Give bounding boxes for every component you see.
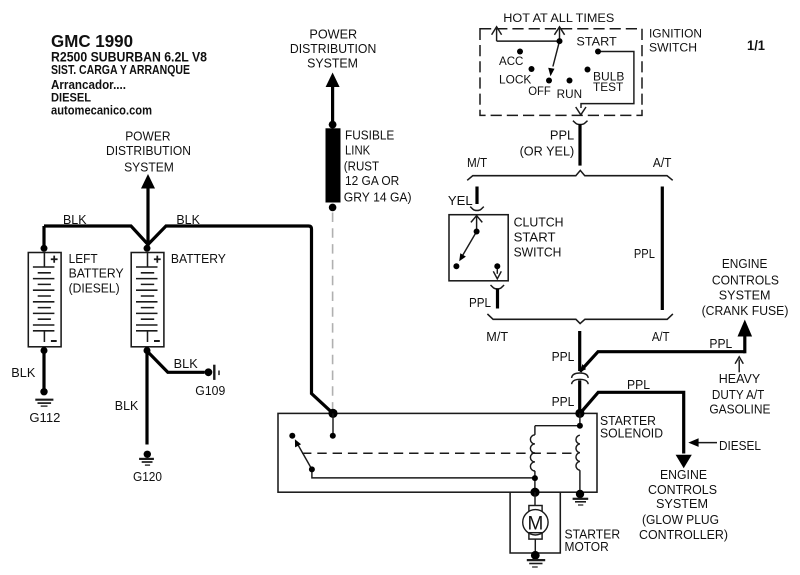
svg-text:(DIESEL): (DIESEL) <box>69 282 120 296</box>
svg-text:POWER: POWER <box>125 129 170 143</box>
svg-text:YEL: YEL <box>448 194 473 208</box>
svg-text:R2500 SUBURBAN 6.2L V8: R2500 SUBURBAN 6.2L V8 <box>51 48 207 64</box>
svg-text:SIST. CARGA Y ARRANQUE: SIST. CARGA Y ARRANQUE <box>51 63 190 77</box>
svg-text:CLUTCH: CLUTCH <box>514 215 564 229</box>
svg-text:12 GA OR: 12 GA OR <box>345 174 399 188</box>
svg-text:SOLENOID: SOLENOID <box>600 427 663 441</box>
svg-text:START: START <box>576 36 616 48</box>
svg-text:START: START <box>514 230 556 244</box>
svg-text:BLK: BLK <box>115 399 139 413</box>
svg-text:BLK: BLK <box>176 213 200 227</box>
svg-text:SYSTEM: SYSTEM <box>656 497 708 511</box>
svg-text:CONTROLLER): CONTROLLER) <box>639 528 728 542</box>
svg-text:DIESEL: DIESEL <box>51 90 91 104</box>
svg-text:SYSTEM: SYSTEM <box>719 289 771 303</box>
svg-text:DIESEL: DIESEL <box>719 439 761 453</box>
svg-text:(RUST: (RUST <box>344 160 380 174</box>
svg-text:DISTRIBUTION: DISTRIBUTION <box>290 42 376 56</box>
svg-text:G109: G109 <box>195 384 225 398</box>
svg-text:CONTROLS: CONTROLS <box>648 483 717 497</box>
svg-text:BATTERY: BATTERY <box>69 267 125 281</box>
svg-text:automecanico.com: automecanico.com <box>51 104 152 118</box>
svg-text:ENGINE: ENGINE <box>722 257 768 271</box>
svg-text:FUSIBLE: FUSIBLE <box>345 128 394 142</box>
svg-text:G112: G112 <box>29 411 60 425</box>
svg-text:G120: G120 <box>133 470 162 484</box>
svg-text:M/T: M/T <box>486 330 508 344</box>
svg-text:ACC: ACC <box>499 56 523 68</box>
svg-text:BATTERY: BATTERY <box>171 252 227 266</box>
svg-text:(CRANK FUSE): (CRANK FUSE) <box>702 304 789 318</box>
svg-text:1/1: 1/1 <box>747 37 765 53</box>
svg-text:SYSTEM: SYSTEM <box>124 161 174 175</box>
svg-text:OFF: OFF <box>528 86 551 98</box>
svg-text:DISTRIBUTION: DISTRIBUTION <box>106 144 191 158</box>
svg-text:SYSTEM: SYSTEM <box>307 56 358 70</box>
svg-text:ENGINE: ENGINE <box>660 468 707 482</box>
svg-text:PPL: PPL <box>469 296 491 310</box>
svg-text:LINK: LINK <box>345 144 371 158</box>
svg-text:CONTROLS: CONTROLS <box>712 274 779 288</box>
svg-text:SWITCH: SWITCH <box>514 245 562 259</box>
svg-text:(GLOW PLUG: (GLOW PLUG <box>642 513 719 527</box>
svg-text:TEST: TEST <box>593 82 623 94</box>
svg-text:HOT AT ALL TIMES: HOT AT ALL TIMES <box>503 13 614 25</box>
svg-text:BLK: BLK <box>11 366 36 380</box>
svg-text:GRY 14 GA): GRY 14 GA) <box>344 190 412 204</box>
svg-text:PPL: PPL <box>634 247 655 261</box>
svg-text:(OR YEL): (OR YEL) <box>520 144 575 158</box>
svg-text:DUTY A/T: DUTY A/T <box>712 388 765 402</box>
svg-text:BLK: BLK <box>174 357 199 371</box>
svg-text:M: M <box>527 513 543 534</box>
svg-text:PPL: PPL <box>552 395 575 409</box>
svg-text:PPL: PPL <box>552 350 575 364</box>
svg-text:SWITCH: SWITCH <box>649 43 697 55</box>
svg-text:A/T: A/T <box>652 330 670 344</box>
svg-text:LOCK: LOCK <box>499 74 532 86</box>
svg-text:A/T: A/T <box>653 156 672 170</box>
svg-text:GASOLINE: GASOLINE <box>709 403 770 417</box>
svg-text:HEAVY: HEAVY <box>719 372 761 386</box>
svg-text:MOTOR: MOTOR <box>565 540 609 554</box>
svg-text:RUN: RUN <box>557 89 582 101</box>
svg-text:POWER: POWER <box>309 28 357 42</box>
svg-text:M/T: M/T <box>467 156 487 170</box>
svg-text:PPL: PPL <box>709 337 732 351</box>
svg-text:LEFT: LEFT <box>69 252 98 266</box>
svg-text:PPL: PPL <box>550 128 574 142</box>
svg-text:PPL: PPL <box>627 378 650 392</box>
svg-text:BLK: BLK <box>63 213 87 227</box>
svg-text:IGNITION: IGNITION <box>649 28 702 40</box>
